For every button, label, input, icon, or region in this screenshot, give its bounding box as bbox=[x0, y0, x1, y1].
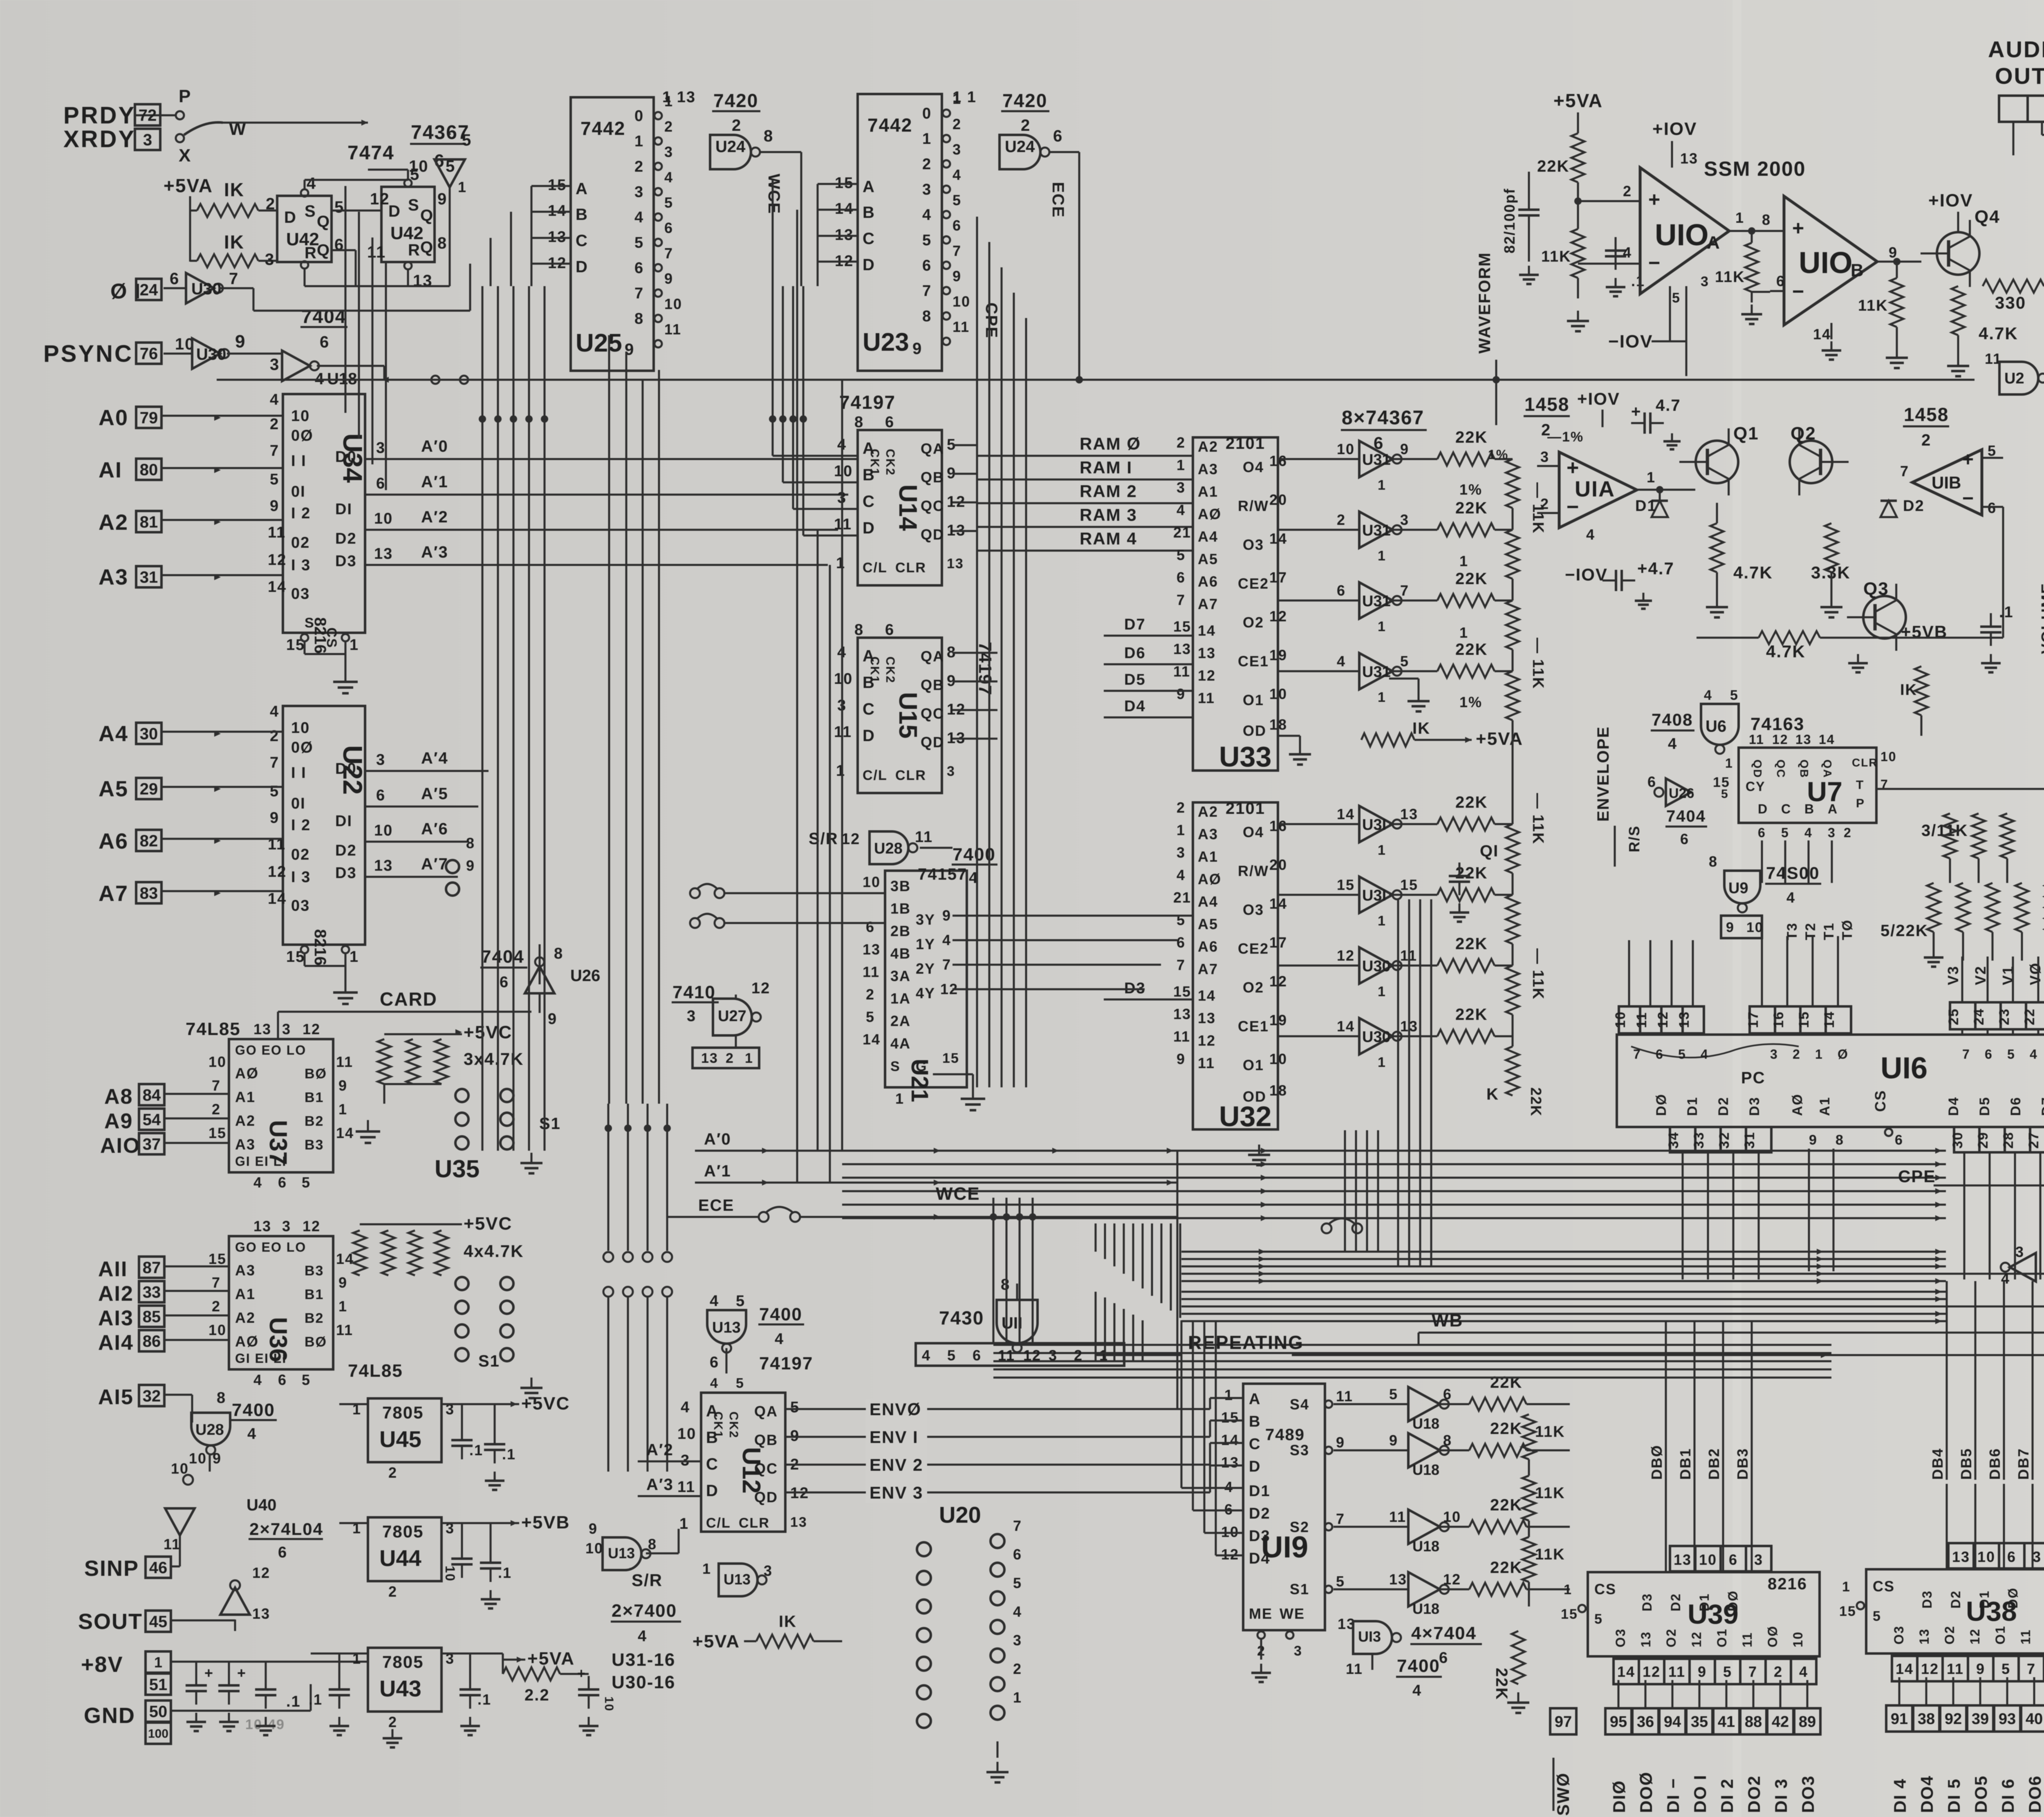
U39 bottom pin cells bbox=[1614, 1659, 1816, 1684]
svg-text:5: 5 bbox=[1781, 825, 1789, 840]
svg-text:U15: U15 bbox=[894, 692, 922, 739]
svg-text:0I: 0I bbox=[291, 795, 306, 812]
cap .1 q3 bbox=[1980, 604, 2014, 672]
svg-text:DBØ: DBØ bbox=[1648, 1445, 1665, 1480]
svg-text:5: 5 bbox=[302, 1371, 311, 1388]
label R/S bbox=[1626, 825, 1643, 852]
svg-text:A: A bbox=[863, 178, 875, 196]
svg-text:10: 10 bbox=[1791, 1631, 1805, 1647]
svg-text:11K: 11K bbox=[1541, 248, 1571, 265]
svg-text:U22: U22 bbox=[338, 745, 368, 795]
svg-text:QB: QB bbox=[1798, 760, 1811, 778]
svg-text:WCE: WCE bbox=[765, 174, 783, 214]
svg-text:11: 11 bbox=[863, 963, 880, 980]
svg-text:15: 15 bbox=[1400, 876, 1418, 893]
svg-text:8: 8 bbox=[634, 310, 644, 327]
svg-text:4A: 4A bbox=[890, 1035, 911, 1052]
svg-text:2: 2 bbox=[634, 158, 644, 175]
svg-text:7430: 7430 bbox=[939, 1307, 984, 1329]
svg-text:.1: .1 bbox=[469, 1442, 483, 1459]
svg-text:12: 12 bbox=[1655, 1011, 1671, 1028]
svg-text:DI 4: DI 4 bbox=[1890, 1778, 1910, 1813]
svg-text:.1: .1 bbox=[1999, 604, 2014, 621]
svg-text:3: 3 bbox=[265, 251, 275, 269]
bus mid horizontal group2 bbox=[993, 1345, 1831, 1361]
svg-text:A3: A3 bbox=[235, 1262, 255, 1279]
svg-text:I 2: I 2 bbox=[291, 505, 311, 522]
svg-text:C: C bbox=[863, 230, 875, 248]
verticals from U23 outputs bbox=[977, 217, 1026, 551]
svg-text:10: 10 bbox=[374, 510, 393, 527]
svg-text:SSM 2000: SSM 2000 bbox=[1704, 157, 1806, 180]
svg-text:13: 13 bbox=[1952, 1548, 1970, 1565]
svg-text:2: 2 bbox=[953, 116, 961, 132]
ground U21 bbox=[961, 1087, 985, 1110]
verticals U25 left pins down bbox=[345, 186, 386, 490]
svg-text:U28: U28 bbox=[195, 1421, 224, 1438]
svg-text:S3: S3 bbox=[1290, 1442, 1309, 1459]
svg-text:12: 12 bbox=[841, 831, 860, 848]
label ENVELOPE bbox=[1594, 726, 1612, 822]
svg-text:7400: 7400 bbox=[759, 1304, 802, 1324]
svg-text:4: 4 bbox=[270, 703, 279, 720]
svg-text:15: 15 bbox=[1173, 983, 1191, 1000]
svg-text:B: B bbox=[1804, 802, 1815, 816]
svg-text:7: 7 bbox=[1013, 1517, 1022, 1534]
U20 connector circles left bbox=[446, 835, 475, 896]
IC U32 2101 bbox=[1173, 799, 1287, 1132]
svg-text:4.7K: 4.7K bbox=[1979, 324, 2018, 343]
svg-text:22K: 22K bbox=[1490, 1496, 1522, 1514]
svg-text:10: 10 bbox=[409, 157, 429, 175]
label CPE vertical bbox=[982, 302, 1000, 338]
svg-text:CS: CS bbox=[324, 627, 339, 648]
svg-text:A0: A0 bbox=[99, 406, 128, 430]
svg-text:B: B bbox=[1851, 260, 1865, 280]
svg-text:I 3: I 3 bbox=[291, 869, 311, 886]
svg-text:11: 11 bbox=[915, 829, 933, 846]
svg-text:8: 8 bbox=[648, 1536, 657, 1553]
svg-text:5: 5 bbox=[2001, 1660, 2010, 1677]
svg-text:12: 12 bbox=[1023, 1347, 1041, 1364]
svg-text:U26: U26 bbox=[1669, 786, 1694, 801]
svg-text:D2: D2 bbox=[1948, 1590, 1963, 1609]
svg-text:PSYNC: PSYNC bbox=[43, 341, 133, 367]
svg-text:3: 3 bbox=[270, 356, 280, 374]
svg-text:2: 2 bbox=[1013, 1660, 1022, 1677]
svg-text:4: 4 bbox=[775, 1331, 784, 1348]
svg-text:21: 21 bbox=[1173, 889, 1191, 906]
svg-text:UIA: UIA bbox=[1575, 477, 1615, 502]
svg-text:37: 37 bbox=[143, 1135, 161, 1153]
svg-text:DB2: DB2 bbox=[1706, 1448, 1722, 1480]
wire WCE drop bbox=[772, 180, 774, 286]
svg-text:1: 1 bbox=[1378, 548, 1386, 564]
label 74L85 (U37) bbox=[186, 1019, 320, 1039]
resistor 4.7K q4 bbox=[1947, 286, 2018, 376]
svg-text:DI: DI bbox=[335, 813, 352, 830]
svg-text:SINP: SINP bbox=[84, 1556, 139, 1581]
svg-text:8: 8 bbox=[1709, 853, 1718, 870]
svg-text:S2: S2 bbox=[1290, 1519, 1309, 1535]
svg-text:SOUT: SOUT bbox=[78, 1609, 143, 1634]
svg-text:A8: A8 bbox=[104, 1085, 133, 1109]
svg-text:92: 92 bbox=[1945, 1711, 1962, 1728]
svg-text:A2: A2 bbox=[235, 1112, 255, 1129]
svg-text:6: 6 bbox=[1729, 1551, 1738, 1568]
svg-text:14: 14 bbox=[1198, 987, 1216, 1004]
svg-text:11: 11 bbox=[268, 524, 286, 541]
svg-text:C: C bbox=[576, 232, 588, 250]
svg-text:6: 6 bbox=[634, 260, 644, 277]
svg-text:U43: U43 bbox=[379, 1676, 421, 1701]
wire A9 bbox=[164, 1118, 229, 1120]
opamp U10A bbox=[1574, 119, 1784, 376]
svg-text:10: 10 bbox=[1880, 749, 1897, 764]
svg-text:17: 17 bbox=[1746, 1011, 1761, 1028]
svg-text:QA: QA bbox=[754, 1403, 778, 1420]
svg-text:3x4.7K: 3x4.7K bbox=[464, 1049, 524, 1069]
svg-text:6: 6 bbox=[2007, 1548, 2016, 1565]
resistor 22K bottom ladder bbox=[1493, 1631, 1529, 1713]
svg-text:—1%: —1% bbox=[1547, 429, 1584, 445]
transistor Q4 bbox=[1921, 190, 2000, 287]
svg-text:GO EO LO: GO EO LO bbox=[235, 1043, 306, 1057]
svg-text:14: 14 bbox=[1337, 1018, 1355, 1035]
svg-text:DI: DI bbox=[335, 501, 352, 518]
svg-text:7400: 7400 bbox=[1397, 1656, 1440, 1676]
long wire MF bbox=[217, 376, 1975, 383]
svg-text:ENV I: ENV I bbox=[870, 1427, 919, 1447]
wire waveform drop bbox=[1495, 360, 1497, 425]
IC U34 8216 bbox=[268, 391, 368, 670]
label SINP bbox=[84, 1556, 171, 1581]
svg-text:74197: 74197 bbox=[839, 392, 896, 413]
connector row D-bus right bbox=[1886, 1677, 2044, 1813]
opamp U10B bbox=[1770, 196, 1921, 360]
svg-text:3: 3 bbox=[634, 184, 644, 201]
svg-text:+5VA: +5VA bbox=[693, 1631, 740, 1651]
svg-text:81: 81 bbox=[140, 513, 158, 531]
svg-text:5: 5 bbox=[1730, 688, 1739, 703]
svg-text:5: 5 bbox=[446, 157, 455, 175]
caps U44 bbox=[443, 1545, 512, 1609]
svg-text:10: 10 bbox=[602, 1696, 616, 1712]
svg-text:QD: QD bbox=[754, 1489, 778, 1506]
svg-text:3: 3 bbox=[1177, 479, 1186, 496]
svg-text:11: 11 bbox=[1740, 1632, 1755, 1647]
svg-text:B1: B1 bbox=[305, 1287, 324, 1302]
svg-text:A: A bbox=[1707, 233, 1721, 253]
svg-text:12: 12 bbox=[1921, 1660, 1939, 1677]
svg-text:4: 4 bbox=[1804, 825, 1813, 840]
IC U36 74L85 bbox=[208, 1218, 354, 1388]
svg-text:.1: .1 bbox=[498, 1564, 512, 1581]
svg-text:1458: 1458 bbox=[1524, 394, 1569, 415]
svg-text:4: 4 bbox=[1623, 244, 1632, 261]
wire +5VA rail bbox=[190, 196, 197, 262]
wire psync run bbox=[217, 366, 842, 384]
svg-text:74L85: 74L85 bbox=[186, 1019, 241, 1039]
svg-text:U30: U30 bbox=[196, 345, 226, 363]
connector pin 83 bbox=[136, 882, 161, 903]
svg-text:U32: U32 bbox=[1219, 1100, 1271, 1132]
connector pin 82 bbox=[136, 830, 161, 851]
resistor 11K osc bbox=[1541, 229, 1589, 331]
svg-text:15: 15 bbox=[208, 1125, 226, 1141]
svg-text:6: 6 bbox=[953, 217, 961, 234]
svg-text:2: 2 bbox=[266, 195, 276, 213]
vertical bundle near U12 bbox=[990, 1198, 1036, 1343]
svg-text:3: 3 bbox=[1701, 274, 1709, 289]
svg-text:2A: 2A bbox=[890, 1013, 911, 1029]
svg-text:D1: D1 bbox=[1249, 1483, 1271, 1500]
svg-text:15: 15 bbox=[942, 1051, 959, 1066]
svg-text:11: 11 bbox=[1749, 732, 1764, 747]
svg-text:6: 6 bbox=[170, 270, 179, 288]
svg-text:A2: A2 bbox=[99, 510, 128, 535]
svg-text:84: 84 bbox=[143, 1086, 161, 1104]
svg-text:ENVELOPE: ENVELOPE bbox=[1594, 726, 1612, 822]
svg-text:02: 02 bbox=[291, 534, 310, 551]
svg-text:S1: S1 bbox=[1290, 1581, 1309, 1597]
svg-text:17: 17 bbox=[1269, 569, 1287, 586]
IC U23 7442 bbox=[835, 90, 970, 371]
svg-text:6: 6 bbox=[278, 1174, 287, 1191]
svg-text:9: 9 bbox=[589, 1520, 598, 1537]
svg-text:+IOV: +IOV bbox=[1928, 190, 1973, 211]
wire A10 bbox=[164, 1142, 229, 1144]
svg-text:+5VA: +5VA bbox=[164, 175, 213, 196]
svg-text:.1: .1 bbox=[1631, 273, 1645, 289]
wire A6 bbox=[161, 838, 283, 844]
svg-text:10: 10 bbox=[291, 408, 310, 425]
svg-text:DI 3: DI 3 bbox=[1771, 1778, 1791, 1813]
svg-text:CS: CS bbox=[1872, 1090, 1889, 1112]
svg-text:Q: Q bbox=[420, 238, 434, 256]
svg-text:14: 14 bbox=[1896, 1660, 1914, 1677]
svg-text:10: 10 bbox=[834, 670, 853, 688]
svg-text:2B: 2B bbox=[890, 923, 911, 939]
svg-text:10: 10 bbox=[208, 1053, 226, 1070]
svg-text:2101: 2101 bbox=[1226, 435, 1265, 453]
svg-text:11: 11 bbox=[1198, 1055, 1215, 1071]
svg-text:7: 7 bbox=[1633, 1047, 1641, 1062]
IC U39 8216 bbox=[1561, 1546, 1820, 1656]
svg-text:4x4.7K: 4x4.7K bbox=[464, 1241, 524, 1261]
svg-text:D2: D2 bbox=[1716, 1097, 1731, 1116]
svg-text:DB5: DB5 bbox=[1958, 1448, 1975, 1480]
svg-text:0I: 0I bbox=[291, 483, 306, 500]
label A6 bbox=[99, 829, 128, 854]
svg-text:CPE: CPE bbox=[982, 302, 1000, 338]
svg-text:7442: 7442 bbox=[867, 114, 912, 136]
svg-text:U18: U18 bbox=[1412, 1600, 1439, 1617]
svg-text:7: 7 bbox=[1336, 1510, 1345, 1527]
label 74L85 (U36) bbox=[348, 1361, 403, 1381]
wire U21 Y outputs to U33 bbox=[953, 916, 1193, 989]
svg-text:A′4: A′4 bbox=[421, 749, 448, 767]
svg-text:5: 5 bbox=[634, 234, 644, 251]
svg-text:86: 86 bbox=[143, 1332, 161, 1350]
resistor ladder 11K vertical bbox=[1506, 459, 1519, 1046]
NAND U24 second bbox=[1000, 127, 1079, 229]
svg-text:IK: IK bbox=[224, 231, 244, 253]
svg-text:5: 5 bbox=[1177, 547, 1186, 563]
wire PRDY/XRDY switch area bbox=[135, 86, 368, 166]
svg-text:O3: O3 bbox=[1613, 1628, 1628, 1647]
svg-text:6: 6 bbox=[376, 475, 385, 492]
wire A12 bbox=[164, 1290, 229, 1292]
svg-text:4: 4 bbox=[1704, 688, 1712, 703]
svg-text:9: 9 bbox=[1400, 441, 1409, 457]
svg-text:QA: QA bbox=[921, 648, 944, 665]
NAND U13 (7400-4) bbox=[707, 1293, 804, 1373]
label 7420 (U24b) bbox=[953, 89, 1049, 134]
svg-text:C: C bbox=[863, 700, 875, 718]
ENV labels bbox=[785, 1400, 1177, 1503]
inverter U30 (psync) bbox=[164, 332, 246, 369]
svg-text:D: D bbox=[863, 256, 875, 274]
svg-text:51: 51 bbox=[149, 1676, 168, 1694]
svg-text:R/W: R/W bbox=[1238, 497, 1269, 514]
svg-text:U18: U18 bbox=[1412, 1415, 1439, 1432]
connector pin 54 bbox=[139, 1109, 164, 1130]
svg-text:10: 10 bbox=[443, 1566, 457, 1582]
svg-text:7: 7 bbox=[212, 1077, 221, 1094]
labels T3 T2 T1 T0 bbox=[1784, 919, 1855, 940]
svg-text:4: 4 bbox=[710, 1376, 719, 1391]
svg-text:RAM I: RAM I bbox=[1080, 458, 1132, 477]
svg-text:U44: U44 bbox=[379, 1545, 421, 1571]
svg-text:+IOV: +IOV bbox=[1577, 389, 1620, 408]
svg-text:4: 4 bbox=[1337, 653, 1346, 670]
regulator U45 7805 bbox=[339, 1394, 570, 1481]
svg-text:A3: A3 bbox=[1198, 826, 1218, 842]
labels DB4-DB7 bbox=[1929, 1448, 2032, 1480]
svg-text:DI 6: DI 6 bbox=[1998, 1778, 2017, 1813]
svg-text:8: 8 bbox=[1443, 1432, 1452, 1449]
svg-text:12: 12 bbox=[303, 1021, 320, 1037]
svg-text:9: 9 bbox=[1177, 1051, 1186, 1067]
resistor 1K +5VA bbox=[693, 1613, 842, 1651]
label WAVEFORM bbox=[1476, 252, 1494, 354]
svg-text:12: 12 bbox=[303, 1218, 320, 1234]
wire A3 bbox=[161, 574, 283, 580]
svg-text:1: 1 bbox=[1459, 624, 1468, 641]
svg-text:9: 9 bbox=[466, 857, 475, 874]
svg-text:18: 18 bbox=[1269, 1082, 1287, 1099]
svg-text:S4: S4 bbox=[1290, 1396, 1309, 1413]
svg-text:U20: U20 bbox=[939, 1502, 981, 1528]
svg-text:U35: U35 bbox=[435, 1155, 480, 1183]
svg-text:3: 3 bbox=[953, 141, 961, 158]
label 74163 u7 bbox=[1750, 714, 1804, 734]
buffer U31 bank2 row2 + 22K bbox=[1278, 935, 1513, 999]
resistor 1K q3 bbox=[1900, 666, 1928, 736]
resistors 3x4.7K bbox=[356, 1022, 524, 1143]
svg-text:9: 9 bbox=[235, 332, 246, 352]
wire ENV extensions bbox=[1177, 1398, 1243, 1492]
ground U33 bbox=[1278, 736, 1311, 764]
opamp U1B bbox=[1900, 442, 2003, 556]
svg-text:+5VC: +5VC bbox=[464, 1022, 512, 1042]
jumper center bbox=[1322, 1219, 1362, 1234]
wire +8V rail bbox=[172, 1662, 368, 1711]
svg-text:U18: U18 bbox=[1412, 1461, 1439, 1478]
IC U12 74197 bbox=[677, 1376, 809, 1532]
svg-text:7: 7 bbox=[270, 754, 279, 771]
svg-text:1458: 1458 bbox=[1904, 404, 1949, 425]
svg-text:S: S bbox=[890, 1059, 901, 1074]
svg-text:D6: D6 bbox=[1124, 645, 1146, 662]
svg-text:30: 30 bbox=[1950, 1131, 1966, 1149]
connector pin 30 bbox=[136, 723, 161, 744]
svg-text:A2: A2 bbox=[235, 1309, 255, 1326]
label A8 bbox=[104, 1085, 133, 1109]
svg-text:32: 32 bbox=[1717, 1131, 1732, 1149]
svg-text:S/R: S/R bbox=[809, 830, 838, 848]
svg-text:+5VA: +5VA bbox=[1553, 90, 1603, 111]
svg-text:10: 10 bbox=[1337, 441, 1355, 457]
label AUDIO OUT bbox=[1988, 36, 2044, 89]
svg-text:D: D bbox=[863, 727, 875, 745]
svg-text:12: 12 bbox=[1772, 732, 1788, 747]
svg-text:1: 1 bbox=[1842, 1579, 1851, 1595]
svg-text:16: 16 bbox=[1269, 818, 1287, 834]
svg-text:74197: 74197 bbox=[759, 1353, 813, 1373]
svg-text:A3: A3 bbox=[1198, 461, 1218, 477]
ground bank1 bbox=[1389, 679, 1430, 711]
NAND U27 bbox=[693, 995, 761, 1068]
NAND U24 bbox=[710, 127, 801, 204]
svg-text:2: 2 bbox=[1337, 511, 1346, 528]
svg-text:O1: O1 bbox=[1243, 692, 1264, 708]
svg-text:1: 1 bbox=[1647, 469, 1656, 486]
svg-text:29: 29 bbox=[140, 780, 158, 798]
svg-text:6: 6 bbox=[1680, 831, 1689, 847]
svg-text:9: 9 bbox=[270, 497, 279, 515]
svg-text:U27: U27 bbox=[718, 1008, 746, 1025]
verticals under U25 bbox=[482, 286, 545, 1151]
svg-text:14: 14 bbox=[268, 890, 287, 907]
inverter U30 (phi1) bbox=[164, 270, 253, 311]
svg-text:D: D bbox=[863, 519, 875, 537]
svg-text:+: + bbox=[1648, 188, 1661, 211]
svg-text:DB4: DB4 bbox=[1929, 1448, 1946, 1480]
svg-text:6: 6 bbox=[1337, 582, 1346, 599]
svg-text:DO4: DO4 bbox=[1917, 1775, 1936, 1813]
svg-text:13: 13 bbox=[1795, 732, 1812, 747]
svg-text:6: 6 bbox=[1776, 273, 1785, 289]
svg-text:22K: 22K bbox=[1528, 1087, 1544, 1117]
label 11K column bbox=[1529, 482, 1546, 1000]
svg-text:P: P bbox=[179, 86, 191, 106]
svg-text:03: 03 bbox=[291, 585, 310, 603]
svg-text:2: 2 bbox=[1074, 1347, 1083, 1364]
svg-text:AI2: AI2 bbox=[98, 1282, 134, 1306]
svg-text:B: B bbox=[1249, 1413, 1261, 1430]
inverter U18 row1 bbox=[1334, 1373, 1570, 1432]
svg-text:P: P bbox=[1856, 797, 1865, 810]
svg-text:A6: A6 bbox=[1198, 938, 1218, 955]
svg-text:5: 5 bbox=[462, 131, 472, 149]
svg-text:11: 11 bbox=[1336, 1388, 1353, 1405]
svg-text:13: 13 bbox=[1389, 1571, 1407, 1588]
svg-text:50: 50 bbox=[149, 1703, 168, 1721]
svg-text:11: 11 bbox=[1346, 1660, 1363, 1677]
label GND bbox=[84, 1700, 171, 1744]
